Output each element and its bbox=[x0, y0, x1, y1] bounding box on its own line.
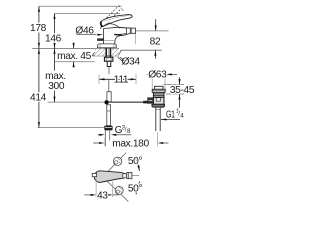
svg-text:82: 82 bbox=[150, 36, 161, 47]
dimension 146 bbox=[54, 14, 56, 49]
base foot bbox=[97, 44, 116, 48]
swing arc bbox=[135, 159, 139, 171]
dimension max.300 bbox=[54, 48, 56, 102]
svg-text:Ø34: Ø34 bbox=[121, 57, 140, 68]
dimension 414 bbox=[38, 48, 40, 127]
deck hatching left block bbox=[95, 49, 106, 56]
G3/8 connector bbox=[104, 126, 112, 131]
lever butt shading bbox=[101, 22, 103, 27]
phantom circle upper bbox=[113, 157, 121, 165]
threaded shank bbox=[105, 48, 107, 57]
top reference line (raised lever level) bbox=[39, 5, 121, 7]
body dome bbox=[100, 24, 119, 29]
dimension 111 bbox=[99, 78, 136, 80]
tailpipe bbox=[155, 107, 157, 131]
pop-up rod bbox=[109, 101, 148, 103]
deck top line left bbox=[32, 47, 119, 49]
dimension 35-45 bbox=[164, 84, 185, 86]
dimension 43 bbox=[95, 178, 97, 197]
phantom ray upper bbox=[106, 153, 126, 174]
svg-text:146: 146 bbox=[45, 34, 62, 45]
lower body bbox=[153, 97, 164, 104]
leader slashes from 45 to deck section bbox=[92, 51, 96, 56]
svg-text:G1: G1 bbox=[166, 110, 175, 121]
svg-text:4: 4 bbox=[180, 113, 184, 120]
supply level line (max300 lower ref) bbox=[48, 101, 105, 103]
svg-text:Ø63: Ø63 bbox=[148, 70, 167, 81]
svg-text:414: 414 bbox=[30, 92, 47, 103]
label Ø63 bbox=[151, 78, 153, 89]
body bullet bbox=[94, 171, 124, 183]
rod stub left bbox=[92, 173, 96, 176]
aerator end block bbox=[127, 172, 132, 178]
dimension max.180 bbox=[93, 142, 99, 144]
svg-text:111: 111 bbox=[114, 75, 129, 86]
rim line right (82 lower ref) bbox=[120, 49, 161, 51]
lever handle bbox=[101, 15, 133, 27]
svg-text:50°: 50° bbox=[128, 156, 143, 167]
svg-text:max. 45: max. 45 bbox=[57, 51, 91, 62]
dimension 82 bbox=[155, 19, 157, 31]
svg-text:max.180: max.180 bbox=[112, 138, 149, 149]
junction dot bbox=[104, 100, 108, 104]
dimension max. 45 bbox=[73, 43, 75, 68]
spout centerline to arc bbox=[132, 175, 139, 177]
tube below connector bbox=[104, 130, 106, 146]
deck bottom extension line (max45 lower ref) bbox=[55, 61, 95, 63]
supply hose nipple bbox=[107, 61, 111, 66]
flange bbox=[152, 89, 165, 92]
connector level line (414 lower ref) bbox=[38, 127, 105, 129]
hose rect above dot bbox=[107, 92, 111, 102]
dark streak under spout bbox=[114, 34, 122, 36]
mounting nut bbox=[104, 57, 113, 61]
svg-text:300: 300 bbox=[48, 81, 65, 92]
svg-text:8: 8 bbox=[127, 128, 131, 135]
phantom circle lower bbox=[115, 186, 123, 194]
upper body bbox=[153, 92, 164, 97]
svg-text:35-45: 35-45 bbox=[170, 85, 195, 96]
supply stub left bbox=[97, 39, 103, 41]
dimension 178 bbox=[38, 6, 40, 48]
aerator vertical extension bbox=[135, 34, 137, 45]
aerator bbox=[130, 28, 135, 33]
svg-text:43: 43 bbox=[97, 190, 108, 201]
tube diameter left arrow bbox=[98, 134, 100, 136]
deck hatching right block bbox=[111, 49, 119, 56]
rod knob bbox=[148, 98, 154, 104]
spout tip bbox=[120, 28, 131, 36]
second reference line (lever top level) bbox=[55, 13, 121, 15]
plug seat white detail bbox=[156, 98, 160, 101]
spout top line bbox=[118, 27, 130, 29]
aerator circle on arm bbox=[122, 174, 126, 178]
dashed raised lever bbox=[104, 6, 124, 23]
plug bbox=[155, 86, 163, 89]
hose upper single line bbox=[108, 67, 110, 75]
locknut bbox=[152, 104, 165, 106]
svg-text:50°: 50° bbox=[128, 184, 143, 195]
aerator outlet extension line bbox=[136, 30, 169, 32]
hose below dot bbox=[107, 105, 111, 126]
body and spout bbox=[104, 27, 127, 44]
phantom ray lower bbox=[106, 181, 128, 202]
lever inner line bbox=[104, 16, 128, 22]
deck section bottom line bbox=[57, 55, 119, 57]
